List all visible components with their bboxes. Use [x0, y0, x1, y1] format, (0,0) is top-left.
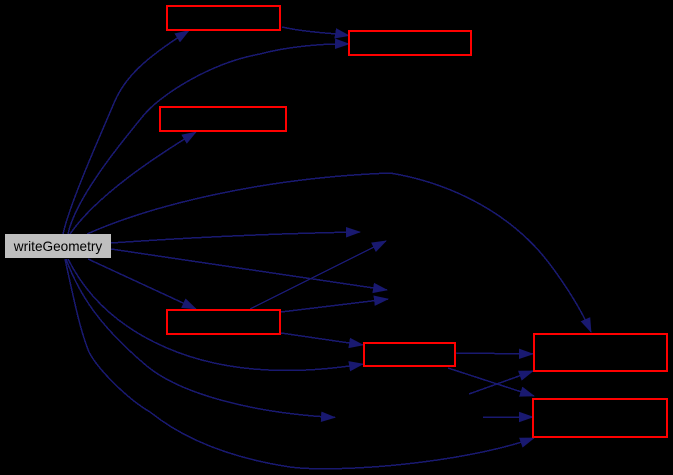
- node box2: [349, 31, 471, 55]
- wire edge writeGeometry to box2: [68, 44, 349, 234]
- wire edge writeGeometry to box5 lower: [68, 259, 363, 371]
- wire edge writeGeometry to box3: [70, 132, 196, 234]
- wire edge box4 to hidden node d: [281, 299, 388, 312]
- node box3: [160, 107, 286, 131]
- wire edge writeGeometry to box4 top: [88, 259, 196, 309]
- wire edge box4 to box5 upper: [281, 333, 363, 345]
- wire edge writeGeometry big arc to box6 top: [87, 173, 591, 332]
- svg-text:writeGeometry: writeGeometry: [13, 239, 103, 254]
- node box1: [167, 6, 280, 30]
- wire edge writeGeometry to hidden node c: [111, 249, 387, 290]
- wire edge box5 to box7 topleft: [448, 368, 534, 396]
- node box5: [364, 343, 455, 366]
- wire edge writeGeometry to hidden node e: [66, 259, 335, 418]
- node writeGeometry: [5, 234, 111, 258]
- node box7: [533, 399, 667, 437]
- wire edge box1 to box2: [282, 27, 349, 36]
- wire edge box4 to hidden node b: [250, 241, 386, 309]
- wire edge writeGeometry bottom arc to box7 bottom: [65, 259, 534, 469]
- node box6: [534, 334, 667, 371]
- node box4: [167, 310, 280, 334]
- wire edge writeGeometry to hidden node a: [111, 232, 360, 243]
- wire edge writeGeometry to box1: [63, 31, 189, 235]
- wire edge box5 to box6 left: [456, 353, 533, 354]
- wire edge hidden node to box7 left: [483, 416, 533, 418]
- wire edge hidden node to box6 bottomleft: [469, 371, 533, 394]
